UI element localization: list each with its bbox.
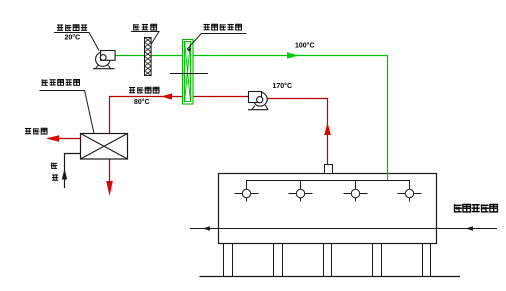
heat pipe partition line — [170, 73, 208, 75]
leg 4 — [373, 244, 382, 277]
red exhaust line left horizontal — [109, 96, 249, 98]
burner circle 1 — [235, 189, 259, 197]
supply fan — [93, 51, 115, 69]
leg 5 — [423, 244, 431, 277]
cold water up arrow — [62, 169, 67, 180]
red up arrow on oven exhaust — [324, 123, 331, 136]
red vertical to water exchanger — [109, 97, 111, 134]
burner stub 2 — [300, 181, 302, 202]
leg 2 — [274, 244, 283, 277]
leg 1 — [224, 244, 233, 277]
svg-text:20°C: 20°C — [65, 34, 81, 42]
green flow arrow 100C — [287, 52, 299, 59]
oven (stenter machine) body — [219, 174, 437, 244]
filter — [145, 38, 152, 76]
fabric arrow right — [466, 226, 474, 230]
label 汽水换热器 with leader — [40, 79, 95, 133]
red exhaust line right horizontal — [267, 98, 328, 100]
burner stub 3 — [355, 181, 357, 202]
hot water out line — [48, 138, 81, 140]
exhaust fan — [248, 92, 268, 110]
ground line — [200, 276, 461, 278]
label 冷 — [51, 163, 57, 169]
heat pipe partition over exchanger — [170, 73, 208, 75]
red discharge line below water exchanger — [109, 159, 111, 186]
green supply air line horizontal — [115, 55, 388, 57]
label 织物移动线 — [454, 204, 498, 213]
fabric movement line — [190, 228, 497, 230]
leg 3 — [324, 244, 332, 277]
label 热管换热器 with leader — [187, 24, 246, 52]
label 过滤器 with leader — [131, 24, 159, 44]
label 热水出 — [25, 128, 47, 135]
svg-text:100°C: 100°C — [295, 42, 315, 50]
label 废热出口 80°C — [129, 87, 159, 106]
inlet nub on oven top — [325, 165, 333, 174]
hot water out arrow — [46, 135, 59, 141]
heat pipe exchanger — [183, 40, 194, 105]
cold water in line — [65, 154, 81, 189]
fabric arrow left — [203, 226, 211, 230]
burner circle 4 — [398, 189, 422, 197]
svg-text:170°C: 170°C — [273, 82, 293, 90]
duct manifold inside oven — [247, 181, 410, 202]
red vertical from oven nub — [327, 99, 329, 165]
steam-water heat exchanger box — [81, 134, 128, 160]
red flow arrow 80C — [161, 93, 172, 99]
label 新鲜空气 20°C with leader — [54, 24, 99, 50]
green supply air line vertical — [387, 56, 389, 181]
burner circle 2 — [289, 189, 313, 197]
svg-text:80°C: 80°C — [134, 98, 150, 106]
burner circle 3 — [344, 189, 368, 197]
red down arrow discharge — [106, 181, 113, 196]
label 水 — [52, 174, 58, 180]
